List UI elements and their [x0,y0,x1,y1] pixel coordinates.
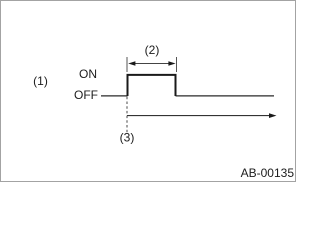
svg-text:(1): (1) [33,74,48,88]
wire OFF baseline left segment [101,95,128,97]
pulse waveform [128,75,176,96]
wire OFF baseline right segment [176,95,275,97]
svg-text:OFF: OFF [74,88,98,102]
extension line left [126,57,128,72]
svg-text:ON: ON [79,67,97,81]
extension line right [176,57,178,72]
border frame [1,1,296,182]
dashed reference line at rising edge [126,97,128,133]
svg-text:(2): (2) [145,43,160,57]
time axis arrow [127,115,271,117]
svg-text:AB-00135: AB-00135 [241,166,295,180]
dimension arrow (2) double-headed [130,63,174,65]
svg-text:(3): (3) [120,131,135,145]
